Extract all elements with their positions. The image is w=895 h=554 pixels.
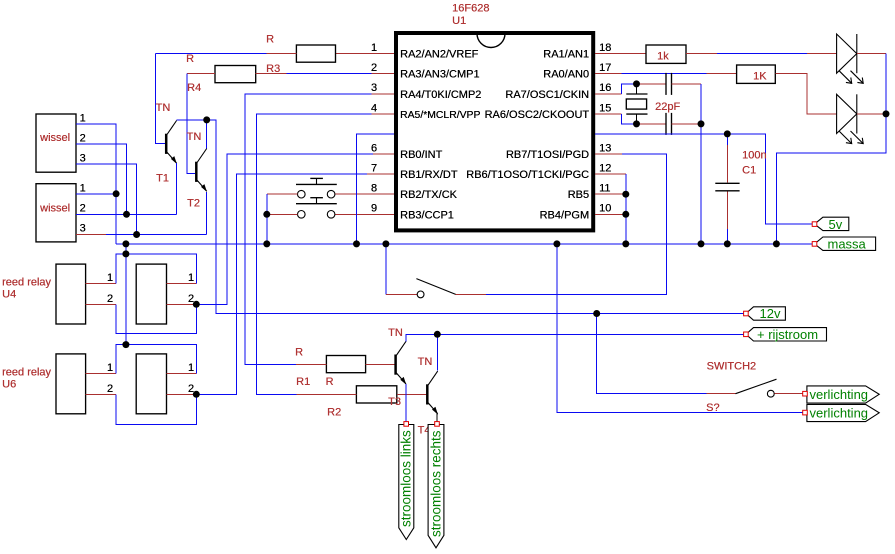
wissel1 pin numbers bbox=[80, 113, 86, 165]
wire red left of resistor R4 bbox=[187, 73, 215, 75]
resistor R (top, to pin 1) bbox=[296, 45, 335, 62]
svg-text:verlichting: verlichting bbox=[810, 405, 869, 420]
svg-text:1: 1 bbox=[371, 42, 377, 54]
svg-text:R: R bbox=[186, 53, 194, 65]
svg-text:TN: TN bbox=[187, 131, 202, 143]
wire massa stub to relay ground buses bbox=[125, 244, 127, 345]
wire pushbutton common vertical bbox=[266, 194, 268, 244]
svg-text:3: 3 bbox=[371, 82, 377, 94]
svg-text:RA0/AN0: RA0/AN0 bbox=[543, 69, 589, 81]
wire R2 to T4 base red bbox=[397, 393, 428, 395]
wire pin15 to cap bbox=[622, 114, 637, 124]
wire U6 right pin1 red bbox=[167, 373, 197, 375]
IC U1 16F628 bbox=[396, 33, 593, 230]
U1 left pin names bbox=[400, 49, 481, 222]
flag stroomloos links bbox=[399, 422, 414, 540]
svg-text:R1: R1 bbox=[296, 376, 310, 388]
svg-text:RB3/CCP1: RB3/CCP1 bbox=[400, 209, 454, 221]
svg-text:13: 13 bbox=[599, 142, 611, 154]
svg-text:1: 1 bbox=[107, 272, 113, 284]
wire cap top to ground vertical bbox=[672, 83, 702, 85]
wire T1 base vertical bbox=[156, 54, 166, 144]
transistor Q T1 bbox=[166, 121, 177, 165]
svg-text:RA1/AN1: RA1/AN1 bbox=[543, 49, 589, 61]
svg-text:T1: T1 bbox=[156, 173, 169, 185]
wire R2 red left bbox=[297, 393, 357, 395]
wire U6 left pin2 red bbox=[86, 393, 117, 395]
svg-text:T3: T3 bbox=[388, 396, 401, 408]
svg-text:1: 1 bbox=[107, 362, 113, 374]
svg-text:RA2/AN2/VREF: RA2/AN2/VREF bbox=[400, 49, 479, 61]
wire U4 left pin2 red bbox=[86, 303, 117, 305]
wire cap bottom to ground vertical bbox=[672, 123, 702, 125]
wire U6 pin1 ground bus bbox=[116, 345, 196, 374]
resistor R1 bbox=[326, 356, 365, 373]
wire T2 emitter down to wissel2 pin3 bbox=[206, 192, 208, 235]
svg-text:stroomloos links: stroomloos links bbox=[399, 430, 414, 527]
push button S (pin 8) bbox=[296, 178, 337, 198]
svg-text:+ rijstroom: + rijstroom bbox=[757, 327, 818, 342]
resistor R2 bbox=[356, 386, 396, 403]
LED D2 bbox=[837, 94, 864, 143]
svg-text:1: 1 bbox=[80, 113, 86, 125]
svg-text:10: 10 bbox=[599, 203, 611, 215]
wire T3 emitter to flag bbox=[405, 384, 407, 422]
wire T3 T4 collectors to rijstroom line bbox=[406, 334, 746, 341]
svg-text:2: 2 bbox=[371, 62, 377, 74]
LED D1 bbox=[837, 34, 864, 83]
svg-text:U6: U6 bbox=[2, 379, 16, 391]
wire 1K to LED2 bbox=[775, 74, 836, 114]
wire U6 right pin2 red bbox=[167, 393, 197, 395]
wire pin2 red from resistor right bbox=[256, 73, 287, 75]
svg-text:RB2/TX/CK: RB2/TX/CK bbox=[400, 189, 458, 201]
wire U4 pin2 loop bbox=[116, 304, 196, 333]
svg-text:R2: R2 bbox=[327, 407, 341, 419]
wire massa branch to verlichting lower bbox=[557, 244, 805, 413]
U4 pin numbers bbox=[107, 272, 194, 305]
wire pin2 blue middle bbox=[286, 73, 371, 75]
svg-text:TN: TN bbox=[418, 356, 433, 368]
svg-text:R: R bbox=[326, 376, 334, 388]
wire U4 left pin1 red bbox=[86, 283, 117, 285]
flag verlichting (upper) bbox=[803, 386, 880, 403]
crystal Q1 bbox=[626, 84, 647, 124]
svg-text:1: 1 bbox=[80, 182, 86, 194]
svg-text:2: 2 bbox=[107, 383, 113, 395]
svg-text:RA6/OSC2/CKOOUT: RA6/OSC2/CKOOUT bbox=[484, 109, 589, 121]
svg-text:RB4/PGM: RB4/PGM bbox=[539, 209, 589, 221]
U6 pin numbers bbox=[107, 362, 194, 395]
svg-text:RA7/OSC1/CKIN: RA7/OSC1/CKIN bbox=[505, 89, 589, 101]
flag + rijstroom bbox=[744, 327, 827, 342]
wire wissel2 pin3 blue to T2 emitter bbox=[106, 234, 207, 236]
capacitor C3 22pF (bottom) bbox=[666, 113, 672, 135]
wire wissel1 pin1 to massa bus bbox=[76, 124, 116, 244]
transistor Q T3 bbox=[396, 341, 407, 385]
svg-text:RB7/T1OSI/PGD: RB7/T1OSI/PGD bbox=[506, 149, 589, 161]
wire pins 12 11 10 to massa bbox=[625, 174, 627, 244]
svg-text:100n: 100n bbox=[742, 150, 766, 162]
wire U6 pin2 loop bbox=[116, 394, 196, 424]
svg-text:4: 4 bbox=[371, 102, 377, 114]
wire U6 left pin1 red bbox=[86, 373, 117, 375]
svg-text:R: R bbox=[295, 347, 303, 359]
wire LED1 cathode bbox=[857, 53, 886, 55]
wire T1 T2 collectors to 12v line bbox=[177, 120, 746, 314]
push button S (pin 9) bbox=[296, 198, 337, 218]
svg-text:R4: R4 bbox=[187, 82, 201, 94]
wire pushbutton left commons to massa bbox=[267, 194, 298, 214]
wire pin1 red segment to resistor R bbox=[267, 53, 297, 55]
wire pin7 net down to relay U6 contact bbox=[196, 174, 367, 394]
svg-text:2: 2 bbox=[107, 293, 113, 305]
wire pin14 VDD to 5v flag bbox=[595, 134, 815, 224]
flag verlichting (lower) bbox=[803, 404, 880, 421]
transistor Q T2 bbox=[196, 149, 207, 193]
transistor Q T4 bbox=[427, 371, 438, 415]
switch S1 (reed contact to RB7) bbox=[386, 154, 667, 298]
wire pin1 blue segment bbox=[156, 53, 267, 55]
resistor 1K bbox=[737, 65, 776, 83]
wire pin5 VSS net bbox=[357, 134, 395, 244]
svg-text:1k: 1k bbox=[657, 51, 669, 63]
svg-text:22pF: 22pF bbox=[655, 101, 680, 113]
svg-text:RB5: RB5 bbox=[568, 189, 589, 201]
svg-text:2: 2 bbox=[80, 202, 86, 214]
wire U4 right pin2 red bbox=[167, 303, 197, 305]
svg-text:wissel: wissel bbox=[39, 203, 70, 215]
svg-text:11: 11 bbox=[599, 183, 610, 195]
svg-text:TN: TN bbox=[156, 102, 171, 114]
svg-text:RB0/INT: RB0/INT bbox=[400, 149, 442, 161]
reed relay U6 coil box bbox=[56, 354, 86, 414]
svg-text:15: 15 bbox=[599, 102, 611, 114]
wire pin18 after 1k bbox=[686, 53, 717, 55]
wire pin17 net bbox=[622, 73, 707, 75]
wire T4 collector vertical bbox=[436, 334, 438, 370]
svg-text:16: 16 bbox=[599, 82, 611, 94]
svg-text:12v: 12v bbox=[760, 306, 781, 321]
connector wissel (lower) bbox=[36, 184, 76, 242]
svg-text:18: 18 bbox=[599, 42, 611, 54]
wire U4 pin1 ground bus bbox=[116, 254, 196, 284]
svg-text:5v: 5v bbox=[829, 217, 843, 232]
wire wissel1 pin3 bbox=[76, 164, 137, 234]
U1 right pin numbers bbox=[599, 42, 611, 215]
wire pin16 to cap bbox=[622, 84, 637, 94]
svg-text:SWITCH2: SWITCH2 bbox=[707, 361, 757, 373]
wire wissel2 pin2 to T1 emitter bbox=[76, 213, 177, 215]
U1 left pin numbers bbox=[371, 42, 377, 215]
wire wissel2 pin1 bbox=[76, 193, 116, 195]
svg-text:7: 7 bbox=[371, 163, 377, 175]
wire wissel1 pin2 bbox=[76, 144, 127, 214]
reed relay U4 contact box bbox=[136, 264, 166, 324]
wire T4 emitter to flag bbox=[436, 414, 438, 422]
wire R1 to T3 base red bbox=[366, 364, 396, 366]
svg-text:16F628: 16F628 bbox=[452, 3, 489, 15]
svg-text:wissel: wissel bbox=[39, 132, 70, 144]
svg-text:stroomloos rechts: stroomloos rechts bbox=[429, 430, 444, 537]
svg-text:3: 3 bbox=[80, 153, 86, 165]
resistor 1k bbox=[646, 45, 686, 63]
svg-text:TN: TN bbox=[388, 327, 403, 339]
wire pin6 net down to relay U4 contact bbox=[196, 154, 373, 304]
wire pin3 net to R1 bbox=[245, 94, 372, 365]
wire T1 emitter down to wissel2 pin2 bbox=[176, 163, 178, 214]
wire pin4 net to R2 bbox=[256, 114, 371, 395]
svg-text:1: 1 bbox=[188, 362, 194, 374]
svg-text:RA3/AN3/CMP1: RA3/AN3/CMP1 bbox=[400, 69, 479, 81]
flag stroomloos rechts bbox=[428, 422, 444, 548]
wire LED2 cathode to massa bbox=[857, 113, 886, 115]
reed relay U6 contact box bbox=[136, 354, 166, 414]
wire U4 right pin1 red bbox=[167, 283, 197, 285]
svg-text:T2: T2 bbox=[187, 198, 200, 210]
svg-text:U1: U1 bbox=[452, 15, 466, 27]
svg-text:RB6/T1OSO/T1CKI/PGC: RB6/T1OSO/T1CKI/PGC bbox=[466, 169, 589, 181]
svg-text:reed relay: reed relay bbox=[2, 277, 51, 289]
svg-text:U4: U4 bbox=[2, 289, 16, 301]
svg-text:1: 1 bbox=[188, 272, 194, 284]
svg-text:12: 12 bbox=[599, 163, 611, 175]
connector wissel (upper) bbox=[36, 114, 76, 172]
svg-text:9: 9 bbox=[371, 203, 377, 215]
svg-text:6: 6 bbox=[371, 142, 377, 154]
flag 12v bbox=[744, 306, 786, 321]
wire T2 collector vertical bbox=[206, 120, 208, 149]
svg-text:8: 8 bbox=[371, 183, 377, 195]
resistor R4/R3 (to pin 2) bbox=[215, 66, 256, 83]
svg-text:2: 2 bbox=[80, 133, 86, 145]
wire T2 base vertical bbox=[187, 74, 195, 174]
wire 12v branch to SWITCH2 bbox=[597, 314, 707, 394]
wissel2 pin numbers bbox=[80, 182, 86, 234]
flag massa bbox=[812, 237, 875, 252]
switch SWITCH2 bbox=[707, 379, 805, 397]
svg-text:C1: C1 bbox=[742, 165, 756, 177]
U1 right pin names bbox=[466, 49, 589, 222]
svg-text:R: R bbox=[266, 34, 274, 46]
svg-text:massa: massa bbox=[828, 237, 867, 252]
wire massa bus bbox=[116, 243, 814, 245]
capacitor C1 100n bbox=[715, 134, 739, 244]
flag 5v bbox=[812, 217, 849, 232]
svg-text:17: 17 bbox=[599, 62, 611, 74]
svg-text:RA4/T0KI/CMP2: RA4/T0KI/CMP2 bbox=[400, 89, 481, 101]
svg-text:RB1/RX/DT: RB1/RX/DT bbox=[400, 169, 458, 181]
capacitor C2 22pF (top) bbox=[666, 73, 672, 95]
svg-text:RA5/*MCLR/VPP: RA5/*MCLR/VPP bbox=[400, 110, 480, 121]
reed relay U4 coil box bbox=[56, 264, 86, 324]
svg-text:reed relay: reed relay bbox=[2, 367, 51, 379]
wire wissel2 pin3 red stub bbox=[76, 234, 106, 236]
svg-text:3: 3 bbox=[80, 223, 86, 235]
svg-text:verlichting: verlichting bbox=[810, 387, 869, 402]
wire R1 red left bbox=[296, 364, 327, 366]
svg-text:1K: 1K bbox=[753, 71, 767, 83]
U1 red pin stubs bbox=[335, 54, 646, 215]
